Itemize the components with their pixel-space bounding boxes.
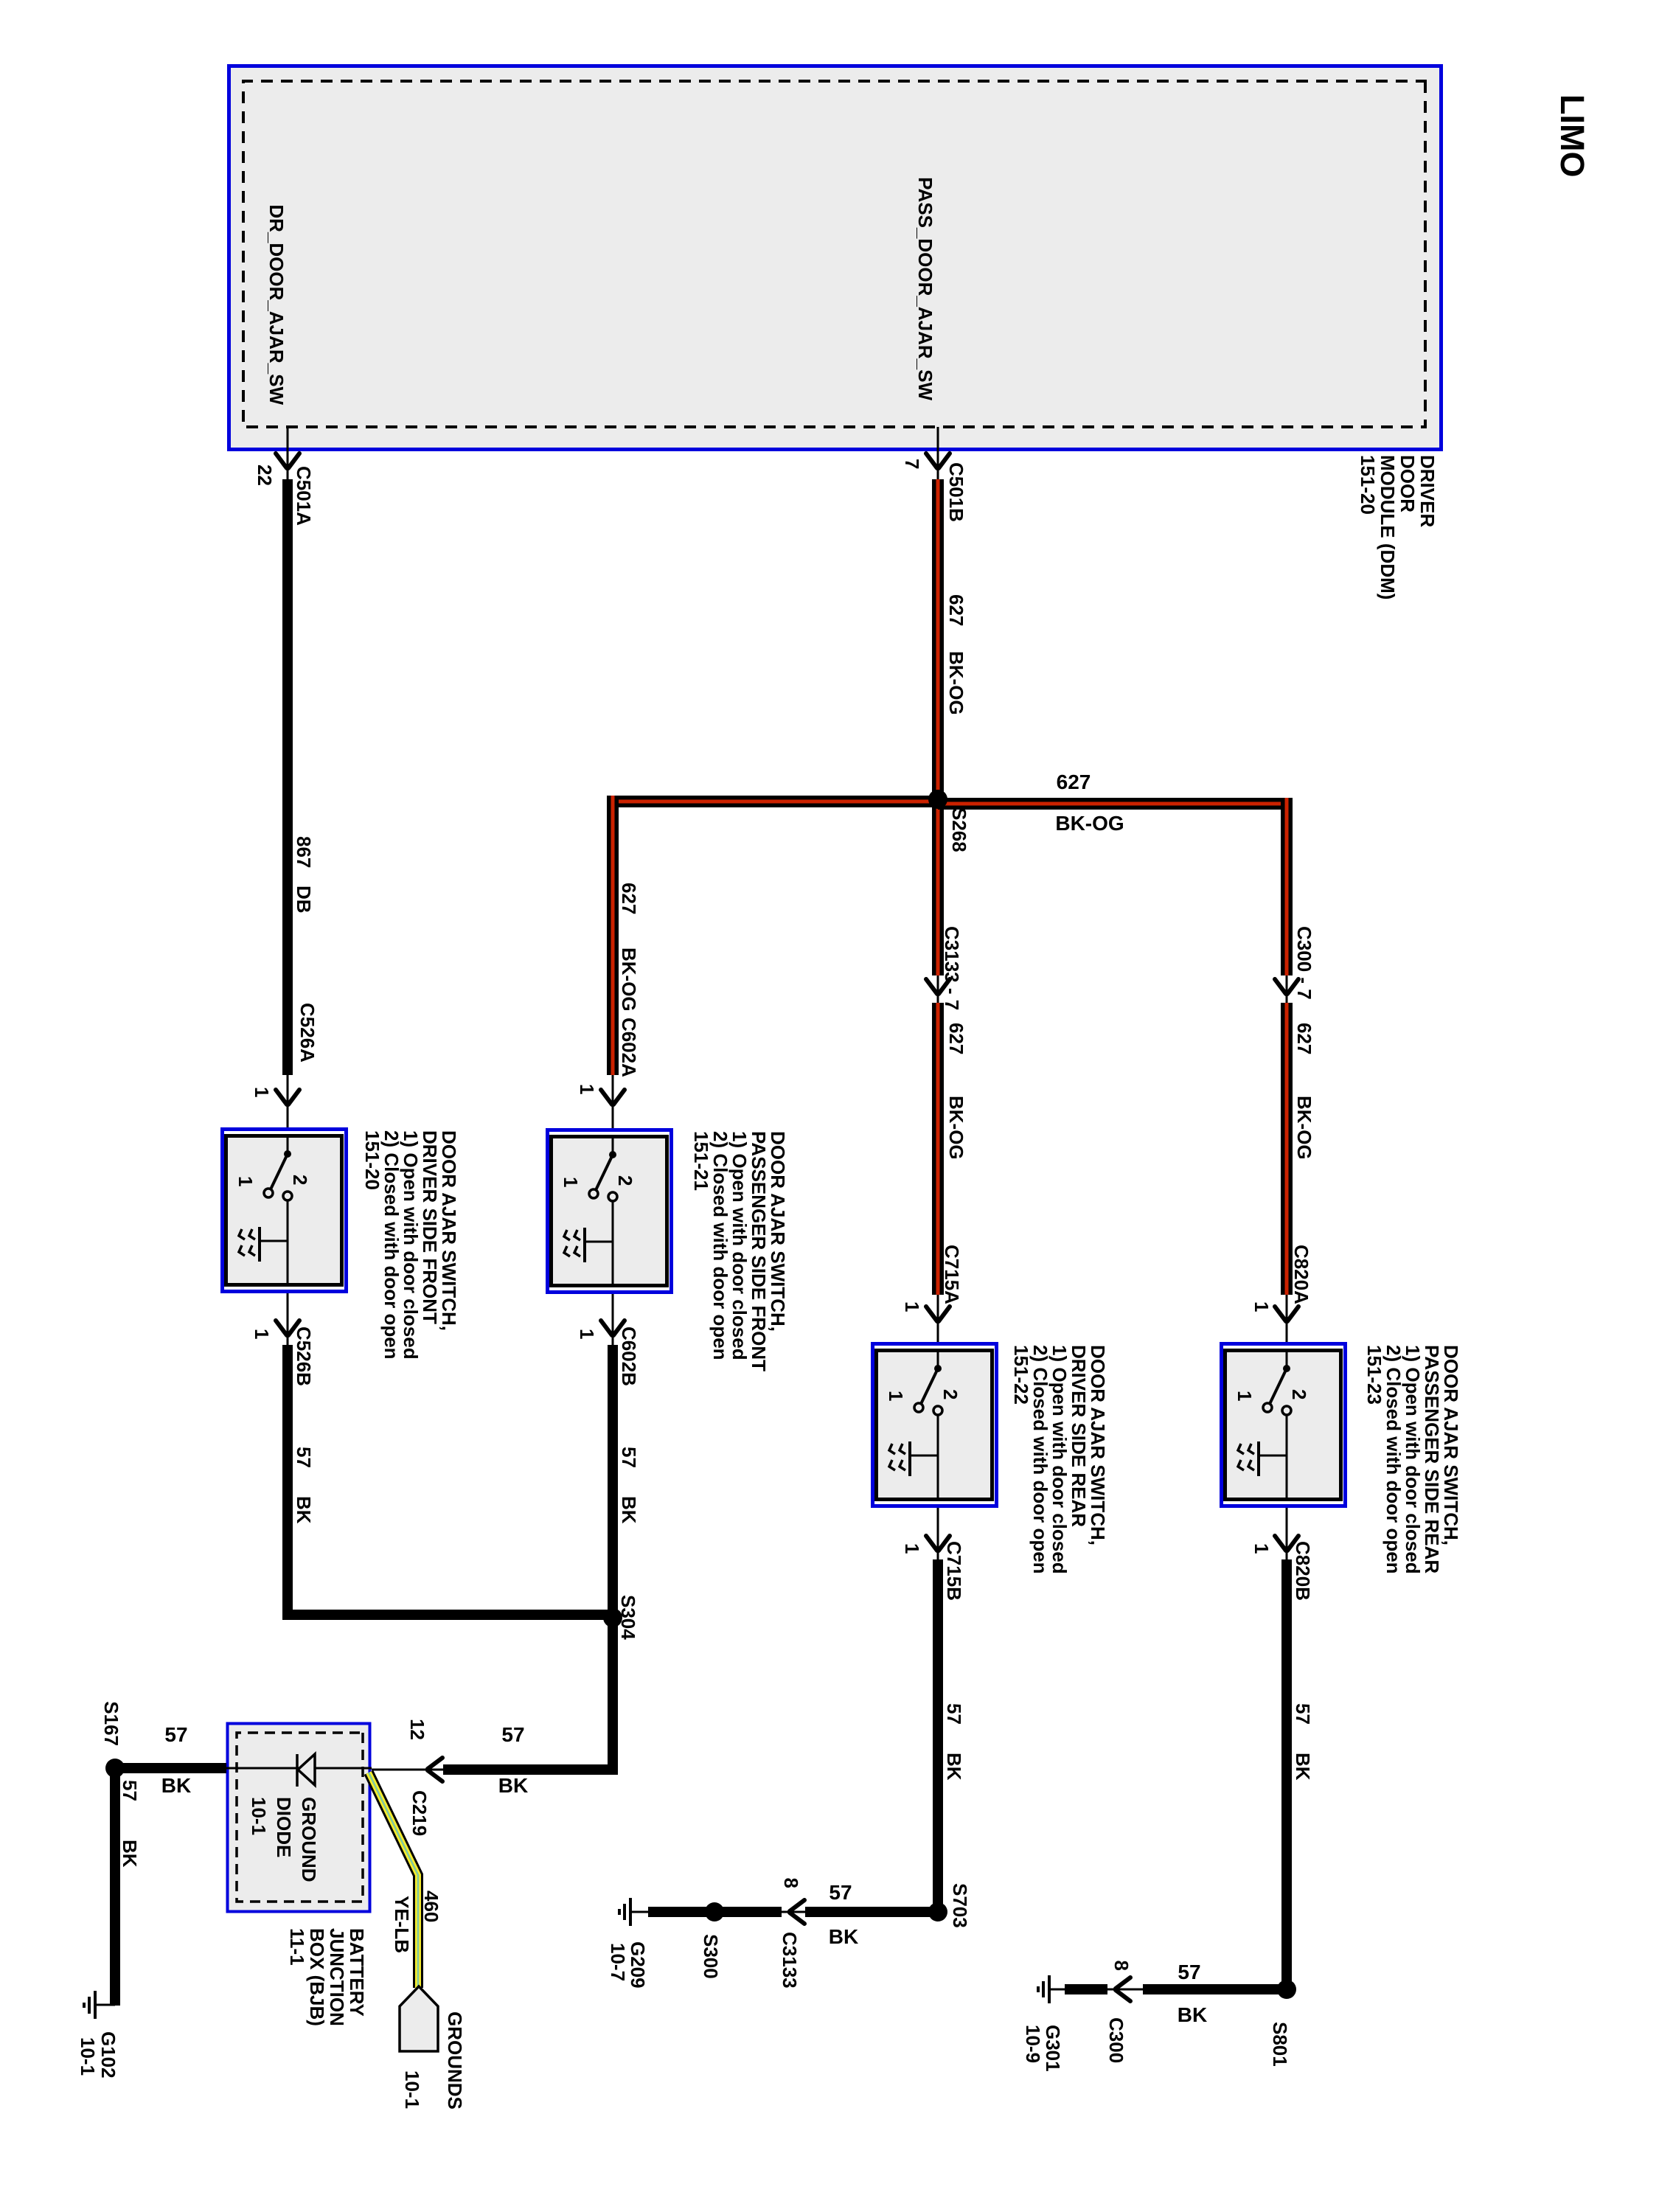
svg-text:11-1: 11-1 — [286, 1928, 308, 1966]
switch passenger side rear internals — [1286, 1349, 1288, 1368]
switch passenger side front internals — [612, 1135, 614, 1155]
svg-text:1) Open with door closed: 1) Open with door closed — [1402, 1345, 1424, 1574]
svg-text:1: 1 — [576, 1084, 598, 1094]
svg-text:151-23: 151-23 — [1363, 1345, 1385, 1405]
module box DRIVER DOOR MODULE (DDM) — [229, 66, 1441, 450]
wire into passenger rear switch — [1286, 1295, 1288, 1342]
svg-text:C715B: C715B — [943, 1541, 965, 1601]
switch driver side rear internals — [937, 1349, 939, 1368]
connector C820A arrow — [1275, 1307, 1298, 1321]
svg-text:627: 627 — [1293, 1023, 1315, 1054]
svg-text:2) Closed with door open: 2) Closed with door open — [380, 1130, 403, 1360]
svg-text:LIMO: LIMO — [1554, 94, 1591, 177]
svg-text:151-20: 151-20 — [1357, 455, 1379, 515]
svg-text:10-1: 10-1 — [77, 2037, 99, 2076]
svg-text:460: 460 — [420, 1891, 442, 1922]
svg-text:C602B: C602B — [618, 1326, 640, 1386]
svg-text:BK: BK — [1292, 1753, 1314, 1781]
svg-text:57: 57 — [293, 1447, 315, 1468]
svg-text:S703: S703 — [949, 1883, 971, 1928]
junction dots layer — [284, 1150, 291, 1158]
svg-text:10-1: 10-1 — [401, 2070, 423, 2109]
svg-text:BK: BK — [161, 1774, 191, 1797]
svg-text:57: 57 — [119, 1780, 141, 1801]
wire into switch — [287, 1075, 289, 1127]
svg-text:BK-OG: BK-OG — [1293, 1096, 1315, 1160]
svg-text:1: 1 — [234, 1176, 257, 1186]
wire 627 BK-OG to C820A — [1281, 1003, 1293, 1295]
wire into passenger front switch — [612, 1075, 614, 1128]
svg-text:BK-OG: BK-OG — [945, 1096, 967, 1160]
wire 867 DB from DDM pin 22 — [287, 427, 289, 481]
svg-text:BK-OG: BK-OG — [1055, 812, 1124, 835]
diode symbol — [298, 1754, 315, 1785]
svg-text:2) Closed with door open: 2) Closed with door open — [1029, 1345, 1051, 1574]
svg-text:C526B: C526B — [293, 1326, 315, 1386]
connector C526A arrow — [276, 1090, 299, 1105]
svg-text:1: 1 — [251, 1329, 273, 1339]
svg-text:BK: BK — [943, 1753, 965, 1781]
svg-text:10-7: 10-7 — [607, 1943, 629, 1981]
svg-text:C526A: C526A — [296, 1003, 319, 1062]
svg-text:C501B: C501B — [945, 462, 967, 522]
wire 627 BK-OG from DDM pin 7 — [937, 427, 939, 481]
svg-text:YE-LB: YE-LB — [391, 1896, 413, 1953]
wire C300 to ground G301 — [1065, 1984, 1107, 1994]
ground G209 symbol — [630, 1911, 648, 1913]
connector C3133 arrow pin 8 — [790, 1900, 804, 1924]
connector C300 arrow pin 8 — [1116, 1978, 1130, 2001]
svg-text:BATTERY: BATTERY — [346, 1928, 368, 2017]
svg-text:1: 1 — [901, 1543, 923, 1554]
svg-text:S268: S268 — [948, 807, 970, 852]
GROUNDS off-page tag — [400, 1986, 438, 2051]
svg-text:57: 57 — [618, 1447, 640, 1468]
svg-text:1) Open with door closed: 1) Open with door closed — [728, 1131, 751, 1360]
svg-text:867: 867 — [293, 836, 315, 868]
svg-text:DOOR: DOOR — [1397, 455, 1419, 512]
svg-text:DOOR AJAR SWITCH,: DOOR AJAR SWITCH, — [438, 1130, 460, 1331]
svg-text:2) Closed with door open: 2) Closed with door open — [1382, 1345, 1405, 1574]
svg-text:DB: DB — [293, 886, 315, 914]
svg-text:2: 2 — [614, 1175, 636, 1186]
switch driver side front internals — [287, 1134, 289, 1154]
svg-text:C300 - 7: C300 - 7 — [1293, 926, 1315, 1000]
module dashed border — [243, 81, 1425, 427]
switch passenger side rear box — [1222, 1344, 1346, 1506]
connector C820B arrow — [1275, 1536, 1298, 1551]
wire out of passenger front switch — [612, 1294, 614, 1346]
wire 57 BK from S167 to G102 — [110, 1768, 120, 2006]
ground diode box (BJB) — [228, 1724, 370, 1912]
svg-text:C3133: C3133 — [779, 1932, 801, 1989]
svg-text:PASSENGER SIDE REAR: PASSENGER SIDE REAR — [1421, 1345, 1443, 1573]
svg-text:57: 57 — [1178, 1961, 1200, 1983]
branch wire 627 BK-OG down from S268 — [619, 796, 938, 807]
svg-text:1: 1 — [560, 1177, 582, 1187]
wire 57 BK down from S801 — [1143, 1984, 1287, 1994]
svg-text:GROUNDS: GROUNDS — [444, 2011, 466, 2110]
svg-text:2: 2 — [1288, 1389, 1310, 1399]
svg-text:C602A: C602A — [618, 1018, 640, 1077]
svg-text:BK-OG: BK-OG — [945, 651, 967, 715]
switch driver side rear door plunger — [910, 1455, 938, 1457]
svg-text:DRIVER SIDE REAR: DRIVER SIDE REAR — [1068, 1345, 1090, 1527]
svg-text:BK: BK — [293, 1496, 315, 1524]
svg-text:8: 8 — [1110, 1961, 1133, 1971]
svg-text:BOX (BJB): BOX (BJB) — [306, 1928, 328, 2026]
connector C501B arrow — [926, 453, 950, 468]
wire out of driver rear switch — [937, 1508, 939, 1561]
wire 57 BK from C602B to S304 — [608, 1345, 618, 1618]
wire 627 BK-OG thick segment — [932, 479, 944, 796]
wire 627 BK-OG from S268 to C3133 — [932, 804, 944, 975]
svg-text:1: 1 — [1251, 1543, 1273, 1554]
connector C300-7 arrow — [1275, 979, 1298, 994]
svg-text:G102: G102 — [97, 2031, 119, 2079]
connector C3133-7 arrow — [926, 979, 950, 994]
svg-text:151-22: 151-22 — [1010, 1345, 1032, 1405]
svg-text:57: 57 — [1292, 1703, 1314, 1725]
svg-text:627: 627 — [618, 883, 640, 914]
wire corner down toward ground diode — [443, 1764, 613, 1775]
svg-text:1: 1 — [885, 1391, 907, 1401]
svg-text:12: 12 — [406, 1719, 428, 1740]
svg-text:1: 1 — [251, 1087, 273, 1097]
branch wire 627 BK-OG to C300 — [1281, 798, 1293, 975]
svg-text:DOOR AJAR SWITCH,: DOOR AJAR SWITCH, — [1440, 1345, 1462, 1545]
svg-text:PASSENGER SIDE FRONT: PASSENGER SIDE FRONT — [748, 1131, 770, 1371]
svg-text:57: 57 — [943, 1703, 965, 1725]
svg-text:BK: BK — [1178, 2003, 1207, 2026]
svg-text:57: 57 — [829, 1881, 852, 1904]
connector C501A arrow — [276, 453, 299, 468]
switch passenger side front door plunger — [585, 1241, 613, 1243]
svg-text:627: 627 — [945, 594, 967, 626]
svg-text:1) Open with door closed: 1) Open with door closed — [1048, 1345, 1071, 1574]
svg-text:C300: C300 — [1105, 2017, 1127, 2063]
svg-text:DOOR AJAR SWITCH,: DOOR AJAR SWITCH, — [767, 1131, 789, 1332]
svg-text:7: 7 — [901, 459, 923, 469]
connector C602A arrow — [601, 1090, 625, 1105]
svg-text:1: 1 — [1251, 1301, 1273, 1312]
svg-text:10-1: 10-1 — [248, 1797, 270, 1835]
svg-text:C820B: C820B — [1292, 1541, 1314, 1601]
wire 627 BK-OG to C715A — [932, 1003, 944, 1295]
wire 57 BK from C526B — [282, 1345, 293, 1620]
ground G102 symbol — [95, 2004, 115, 2006]
svg-text:C219: C219 — [408, 1790, 431, 1836]
switch driver side rear box — [873, 1344, 997, 1506]
connector C715B arrow — [926, 1536, 950, 1551]
switch driver side front door plunger — [260, 1240, 288, 1242]
connector arrow pin 12 toward BJB — [428, 1758, 442, 1781]
svg-text:BK: BK — [829, 1925, 858, 1948]
svg-text:BK: BK — [498, 1774, 528, 1797]
svg-text:151-21: 151-21 — [690, 1131, 712, 1191]
svg-text:G301: G301 — [1042, 2025, 1064, 2072]
svg-text:JUNCTION: JUNCTION — [326, 1928, 348, 2026]
svg-text:PASS_DOOR_AJAR_SW: PASS_DOOR_AJAR_SW — [914, 177, 936, 400]
svg-text:1: 1 — [1234, 1391, 1256, 1401]
ground G301 symbol — [1049, 1989, 1067, 1991]
svg-text:C820A: C820A — [1290, 1245, 1312, 1304]
wire through ground diode box — [226, 1767, 372, 1770]
switch passenger side rear door plunger — [1259, 1455, 1287, 1457]
wire 460 YE-LB from diode box — [369, 1773, 418, 1988]
wire out of passenger rear switch — [1286, 1508, 1288, 1561]
svg-text:C3133 - 7: C3133 - 7 — [941, 926, 963, 1010]
wire into driver rear switch — [937, 1295, 939, 1342]
svg-text:C501A: C501A — [293, 466, 315, 526]
wire 57 BK down from S703 — [805, 1907, 938, 1917]
connector C602B arrow — [601, 1321, 625, 1335]
wire C3133 to ground G209 — [648, 1907, 782, 1917]
svg-text:BK: BK — [618, 1496, 640, 1524]
wire S304 to corner — [608, 1618, 618, 1775]
svg-text:57: 57 — [501, 1723, 524, 1746]
svg-text:S801: S801 — [1269, 2022, 1291, 2067]
branch wire 627 BK-OG to C602A — [607, 796, 619, 1075]
svg-text:57: 57 — [164, 1723, 187, 1746]
svg-text:C715A: C715A — [941, 1245, 963, 1304]
svg-text:DOOR AJAR SWITCH,: DOOR AJAR SWITCH, — [1087, 1345, 1109, 1545]
svg-text:22: 22 — [254, 465, 276, 486]
connector C715A arrow — [926, 1307, 950, 1321]
svg-text:8: 8 — [780, 1878, 802, 1888]
wire 57 BK from C820B to S801 — [1281, 1559, 1292, 1989]
connector C526B arrow — [276, 1321, 299, 1335]
wire out of driver front switch — [287, 1293, 289, 1346]
svg-text:627: 627 — [945, 1023, 967, 1054]
wire corner up to S304 — [282, 1610, 617, 1620]
svg-text:1: 1 — [901, 1301, 923, 1312]
wire 867 DB thick segment — [282, 479, 293, 1075]
svg-text:GROUND: GROUND — [298, 1797, 320, 1882]
switch passenger side front box — [548, 1130, 672, 1293]
svg-text:10-9: 10-9 — [1022, 2025, 1044, 2063]
svg-text:S167: S167 — [100, 1701, 122, 1746]
svg-text:151-20: 151-20 — [361, 1130, 383, 1190]
svg-text:1: 1 — [576, 1329, 598, 1339]
wire 57 BK from C715B to S703 — [933, 1559, 943, 1912]
svg-text:1) Open with door closed: 1) Open with door closed — [400, 1130, 422, 1360]
svg-text:2: 2 — [289, 1175, 311, 1185]
svg-text:DRIVER: DRIVER — [1416, 455, 1439, 527]
svg-text:BK-OG: BK-OG — [618, 947, 640, 1012]
svg-text:2: 2 — [939, 1389, 961, 1399]
svg-text:MODULE (DDM): MODULE (DDM) — [1377, 455, 1399, 599]
ground diode dashed border — [237, 1733, 363, 1902]
wire 57 BK below diode box — [115, 1763, 226, 1773]
svg-text:2) Closed with door open: 2) Closed with door open — [709, 1131, 731, 1360]
svg-text:627: 627 — [1057, 771, 1091, 793]
svg-text:S300: S300 — [700, 1934, 722, 1979]
svg-text:G209: G209 — [627, 1941, 649, 1989]
switch driver side front box — [223, 1130, 347, 1292]
svg-text:DIODE: DIODE — [273, 1797, 295, 1857]
svg-text:BK: BK — [119, 1840, 141, 1868]
svg-text:DR_DOOR_AJAR_SW: DR_DOOR_AJAR_SW — [265, 204, 288, 405]
svg-text:DRIVER SIDE FRONT: DRIVER SIDE FRONT — [419, 1130, 441, 1324]
branch wire 627 BK-OG up from S268 — [938, 798, 1287, 810]
